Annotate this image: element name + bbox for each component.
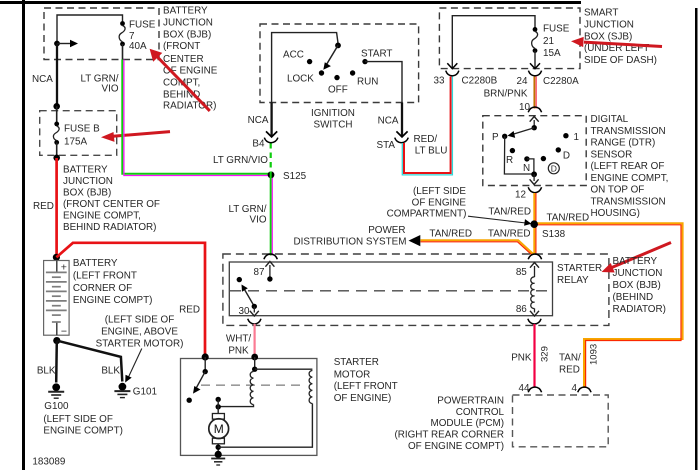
svg-text:CONTROL: CONTROL <box>456 407 505 418</box>
overdrive circled D indicator <box>548 163 559 174</box>
label (LEFT SIDE OF ENGINE, ABOVE STARTER MOTOR) <box>96 315 184 350</box>
svg-text:OF ENGINE): OF ENGINE) <box>334 393 392 404</box>
wire BRN/PNK C2280A to DTR pin 10 (brown) <box>533 77 535 109</box>
svg-text:(LEFT REAR OF: (LEFT REAR OF <box>591 161 665 172</box>
wire NCA to STA <box>401 103 403 137</box>
svg-text:TAN/: TAN/ <box>559 353 581 364</box>
svg-text:4: 4 <box>572 383 578 394</box>
svg-text:OF ENGINE: OF ENGINE <box>412 197 467 208</box>
wire RED/LT BLU STA to C2280B (red) <box>404 77 451 174</box>
svg-text:D: D <box>563 151 570 162</box>
contact OFF <box>334 75 339 80</box>
svg-text:40A: 40A <box>129 41 147 52</box>
svg-text:(LEFT FRONT: (LEFT FRONT <box>73 270 137 281</box>
wire TAN/RED pin12 to S138 (tan) <box>533 193 535 224</box>
svg-text:PNK: PNK <box>228 346 249 357</box>
connector C2280B pin 33 <box>446 63 459 76</box>
wire into fuse B <box>56 106 58 124</box>
contact RUN <box>350 70 355 75</box>
svg-text:START: START <box>361 49 392 60</box>
svg-text:85: 85 <box>516 267 527 278</box>
svg-text:D: D <box>551 164 557 174</box>
red callout arrow to fuse B <box>101 132 170 142</box>
svg-text:RADIATOR): RADIATOR) <box>613 304 666 315</box>
wire N contact to pin 12 <box>527 159 534 174</box>
thin arrow to G101 <box>125 349 142 383</box>
wire TAN/RED S138 down to relay pin 85 (tan) <box>533 224 535 255</box>
svg-text:OF ENGINE COMPT): OF ENGINE COMPT) <box>408 441 504 452</box>
fuse B 175A value label <box>64 124 100 148</box>
connector STA <box>395 131 409 142</box>
relay pin 30 arrow down <box>250 306 259 316</box>
thin arrow from compartment label to S138 <box>468 216 532 226</box>
smart junction box SJB dashed outline <box>439 8 580 69</box>
svg-text:SWITCH: SWITCH <box>314 120 353 131</box>
svg-text:BOX (BJB): BOX (BJB) <box>63 188 111 199</box>
wire BLK battery to G101 <box>57 341 123 382</box>
wire NCA vertical (node to fuse B) <box>56 44 58 107</box>
svg-text:BOX (BJB): BOX (BJB) <box>613 280 661 291</box>
svg-text:ENGINE COMPT,: ENGINE COMPT, <box>63 211 141 222</box>
svg-text:STARTER: STARTER <box>557 263 602 274</box>
motor M1 symbol <box>209 414 229 444</box>
wire BLK battery to G100 <box>55 341 58 383</box>
svg-text:183089: 183089 <box>32 457 65 468</box>
svg-text:HOUSING): HOUSING) <box>591 208 640 219</box>
svg-text:SMART: SMART <box>584 8 618 19</box>
svg-text:RED: RED <box>559 365 580 376</box>
svg-text:BATTERY: BATTERY <box>73 258 118 269</box>
svg-text:VIO: VIO <box>249 215 266 226</box>
splice S125 node <box>268 171 275 178</box>
label TAN/ RED (bottom) <box>559 353 581 376</box>
wire LT GRN/VIO fuse7 to S125 (violet stripe) <box>124 60 271 176</box>
svg-text:BEHIND RADIATOR): BEHIND RADIATOR) <box>63 222 156 233</box>
ignition switch pivot <box>335 43 341 49</box>
svg-text:PNK: PNK <box>511 353 532 364</box>
power distribution arrow triangle <box>409 235 421 246</box>
contact P <box>502 134 507 139</box>
svg-text:LT GRN/: LT GRN/ <box>228 204 266 215</box>
svg-text:STARTER MOTOR): STARTER MOTOR) <box>96 339 184 350</box>
svg-text:LOCK: LOCK <box>287 73 314 84</box>
connector C2280A pin 24 <box>528 63 541 76</box>
node below fuse B box <box>53 155 60 162</box>
wire branch arrow to other circuits <box>57 40 78 47</box>
PCM location label text <box>394 396 504 452</box>
connector B4 <box>264 131 278 142</box>
contact 1 <box>563 133 568 138</box>
fuse B symbol <box>53 122 59 145</box>
wire from START contact <box>365 62 402 103</box>
contact D <box>556 147 561 152</box>
svg-text:TAN/RED: TAN/RED <box>488 206 531 217</box>
label RED/ LT BLU <box>414 134 448 157</box>
motor feed wire <box>217 399 219 413</box>
node junction in BJB <box>54 41 60 47</box>
svg-text:NCA: NCA <box>248 115 269 126</box>
svg-text:(LEFT SIDE OF: (LEFT SIDE OF <box>105 315 175 326</box>
label LT GRN/ VIO (upper) <box>80 74 118 95</box>
relay lever arm <box>242 285 255 307</box>
red callout arrow to fuse 7 <box>150 49 210 111</box>
starter ground symbol <box>211 459 225 466</box>
wire TAN/RED from power distribution (red stripe) <box>421 242 533 255</box>
SJB location label text <box>584 8 657 67</box>
svg-text:MODULE (PCM): MODULE (PCM) <box>430 418 504 429</box>
svg-text:JUNCTION: JUNCTION <box>63 176 113 187</box>
svg-text:G100: G100 <box>44 401 69 412</box>
svg-text:12: 12 <box>515 190 526 201</box>
DTR selector pivot <box>532 125 537 130</box>
svg-text:BOX (BJB): BOX (BJB) <box>163 29 211 40</box>
wire below fuse 21 <box>534 51 536 68</box>
svg-text:S138: S138 <box>542 229 566 240</box>
connector relay pin 87 <box>264 254 277 259</box>
junction node at pin 12 <box>531 171 537 177</box>
svg-text:24: 24 <box>517 76 528 87</box>
contact R <box>510 148 515 153</box>
svg-text:BATTERY: BATTERY <box>63 165 108 176</box>
svg-text:C2280B: C2280B <box>462 76 498 87</box>
svg-text:TAN/RED: TAN/RED <box>429 229 472 240</box>
svg-text:COMPARTMENT): COMPARTMENT) <box>387 209 467 220</box>
svg-text:SIDE OF DASH): SIDE OF DASH) <box>584 55 657 66</box>
svg-text:175A: 175A <box>64 137 87 148</box>
svg-text:CORNER OF: CORNER OF <box>73 283 132 294</box>
svg-text:BRN/PNK: BRN/PNK <box>484 89 528 100</box>
connector DTR pin 12 <box>528 187 541 192</box>
border frame top <box>0 1 581 4</box>
fuse F21 symbol <box>532 27 538 53</box>
svg-text:ENGINE COMPT): ENGINE COMPT) <box>73 295 153 306</box>
svg-text:86: 86 <box>516 304 527 315</box>
connector relay pin 30 <box>248 319 261 324</box>
label IGNITION SWITCH <box>311 108 355 131</box>
starter contact stem <box>204 357 206 372</box>
svg-text:RUN: RUN <box>357 76 378 87</box>
node above fuse B box <box>53 103 60 110</box>
border frame right <box>695 8 698 470</box>
svg-text:LT BLU: LT BLU <box>415 146 448 157</box>
starter feed node (red entry) <box>202 353 209 360</box>
relay inner dashed divider <box>230 290 552 292</box>
svg-text:RED: RED <box>33 201 54 212</box>
svg-text:15A: 15A <box>543 48 561 59</box>
G100 location label <box>43 414 123 437</box>
connector relay pin 85 <box>528 254 541 259</box>
svg-text:G101: G101 <box>133 387 158 398</box>
svg-text:44: 44 <box>519 383 530 394</box>
DTR sensor dashed box <box>483 116 586 186</box>
svg-text:ENGINE COMPT): ENGINE COMPT) <box>43 426 123 437</box>
red callout arrow to SJB <box>571 37 662 47</box>
svg-text:CENTER: CENTER <box>163 54 204 65</box>
starter inner dashed divider <box>201 384 301 386</box>
wire TAN/RED from power distribution (tan) <box>421 240 534 254</box>
svg-text:(FRONT CENTER OF: (FRONT CENTER OF <box>63 199 160 210</box>
relay pin 87 arrow <box>265 262 274 280</box>
connector PCM pin 4 <box>578 387 591 392</box>
BJB (fuse B) location label text <box>63 165 160 234</box>
wire WHT/PNK relay 30 to starter <box>254 324 256 357</box>
starter solenoid contact upper <box>203 369 208 374</box>
relay pin 30 contact node <box>252 304 257 309</box>
ground G100 <box>48 383 64 398</box>
wire TAN/RED S138 loop to PCM pin 4 (tan) <box>534 223 682 388</box>
svg-text:TAN/RED: TAN/RED <box>547 213 590 224</box>
svg-text:RANGE (DTR): RANGE (DTR) <box>591 138 656 149</box>
svg-text:1: 1 <box>574 132 580 143</box>
solenoid winding feed wire <box>254 357 256 369</box>
label WHT/ PNK <box>226 334 251 357</box>
svg-text:(LEFT SIDE OF: (LEFT SIDE OF <box>43 414 113 425</box>
wire out of fuse B <box>56 142 58 157</box>
svg-text:IGNITION: IGNITION <box>311 108 355 119</box>
relay pin 87 contact node <box>267 276 272 281</box>
wire LT GRN/VIO B4 to relay (violet stripe) <box>271 178 273 256</box>
label (LEFT SIDE OF ENGINE COMPARTMENT) <box>387 186 467 220</box>
svg-text:(FRONT: (FRONT <box>163 41 200 52</box>
svg-text:ENGINE, ABOVE: ENGINE, ABOVE <box>101 327 178 338</box>
svg-text:OFF: OFF <box>328 85 348 96</box>
starter solenoid contact lower <box>187 398 192 403</box>
svg-text:RELAY: RELAY <box>557 275 589 286</box>
starter case ground node <box>215 451 222 458</box>
svg-text:JUNCTION: JUNCTION <box>613 268 663 279</box>
svg-text:BATTERY: BATTERY <box>613 256 658 267</box>
svg-text:DIGITAL: DIGITAL <box>591 114 629 125</box>
svg-text:BATTERY: BATTERY <box>163 6 208 17</box>
svg-text:FUSE: FUSE <box>129 20 156 31</box>
svg-text:LT GRN/VIO: LT GRN/VIO <box>213 155 268 166</box>
solenoid winding junction <box>252 367 257 372</box>
connector DTR pin 10 <box>528 107 541 112</box>
wire RED fuse B to battery <box>55 158 58 257</box>
wire BRN/PNK C2280A to DTR pin 10 (pink stripe) <box>535 77 537 109</box>
wire NCA to B4 <box>270 103 272 137</box>
svg-text:TAN/RED: TAN/RED <box>488 229 531 240</box>
svg-text:VIO: VIO <box>101 84 118 95</box>
PCM dashed box <box>513 395 609 447</box>
svg-text:POWER: POWER <box>368 225 405 236</box>
svg-text:RED: RED <box>179 305 200 316</box>
wire RED battery to starter motor <box>56 243 205 357</box>
wire inside BJB from node to fuse 7 <box>57 15 123 44</box>
border frame left <box>22 0 25 470</box>
motor terminal node upper <box>216 397 221 402</box>
starter motor solid box <box>181 359 317 456</box>
svg-text:TRANSMISSION: TRANSMISSION <box>591 196 666 207</box>
svg-text:M: M <box>214 422 224 436</box>
ignition switch lever arm <box>323 45 338 69</box>
wire TAN/RED pin12 to S138 (red stripe) <box>535 193 537 224</box>
svg-text:R: R <box>506 155 513 166</box>
fuse B dashed box <box>40 111 117 156</box>
svg-text:(LEFT SIDE: (LEFT SIDE <box>413 186 466 197</box>
svg-text:ON TOP OF: ON TOP OF <box>591 185 645 196</box>
wire RED/LT BLU STA to C2280B (lt blue stripe) <box>402 77 452 175</box>
svg-text:WHT/: WHT/ <box>226 334 251 345</box>
svg-text:ENGINE COMPT,: ENGINE COMPT, <box>591 173 669 184</box>
svg-text:−: − <box>61 326 67 338</box>
svg-text:S125: S125 <box>283 171 307 182</box>
svg-text:FUSE: FUSE <box>543 24 570 35</box>
battery negative node <box>53 337 60 344</box>
splice S138 node <box>530 220 538 228</box>
connector PCM pin 44 <box>528 387 541 392</box>
svg-text:RED/: RED/ <box>414 134 438 145</box>
svg-text:BLK: BLK <box>37 366 56 377</box>
contact ACC <box>307 59 312 64</box>
starter relay inner solid box <box>229 262 552 316</box>
svg-text:BLK: BLK <box>101 366 120 377</box>
BJB location label text <box>163 6 218 112</box>
svg-text:329: 329 <box>540 346 551 362</box>
svg-text:(LEFT FRONT: (LEFT FRONT <box>334 381 398 392</box>
wire inside SJB to fuse 21 <box>452 16 535 68</box>
svg-text:+: + <box>61 261 67 273</box>
svg-text:ACC: ACC <box>283 49 304 60</box>
svg-text:87: 87 <box>254 267 265 278</box>
contact between N and D <box>541 156 546 161</box>
wire pull-in winding to motor terminal <box>218 405 253 407</box>
battery location label text <box>73 258 153 306</box>
svg-text:1093: 1093 <box>589 344 600 365</box>
svg-text:C2280A: C2280A <box>543 76 579 87</box>
wire stub below fuse 7 <box>122 44 124 60</box>
wire LT GRN/VIO B4 to S125 (green dashed) <box>270 143 272 173</box>
label STARTER RELAY <box>557 263 602 286</box>
svg-text:NCA: NCA <box>378 116 399 127</box>
motor terminal node lower <box>216 404 221 409</box>
starter solenoid lever <box>193 372 205 394</box>
ignition switch feed wire <box>272 33 338 103</box>
contact LOCK <box>319 70 324 75</box>
svg-text:(BEHIND: (BEHIND <box>613 292 654 303</box>
motor ground junction <box>216 445 221 450</box>
red callout arrow to starter relay <box>602 243 672 273</box>
relay coil L1 <box>531 277 535 309</box>
relay fixed contact <box>237 277 242 282</box>
svg-text:P: P <box>492 132 499 143</box>
battery BAT1 symbol <box>44 261 70 338</box>
svg-text:SENSOR: SENSOR <box>591 149 633 160</box>
DTR lever arm to P <box>508 128 535 138</box>
contact N <box>524 156 529 161</box>
wire P contact to pin 12 <box>504 136 534 174</box>
svg-text:JUNCTION: JUNCTION <box>163 17 213 28</box>
wire PNK relay 86 to PCM pin 44 <box>533 324 535 387</box>
contact START <box>362 59 367 64</box>
relay coil arrow up <box>530 263 539 278</box>
svg-text:JUNCTION: JUNCTION <box>584 19 634 30</box>
fuse F7 symbol <box>119 21 125 46</box>
svg-text:STA: STA <box>377 140 396 151</box>
starter solenoid feed node (pink entry) <box>251 354 258 361</box>
connector relay pin 86 <box>528 319 541 324</box>
svg-text:BOX (SJB): BOX (SJB) <box>584 31 632 42</box>
wire LT GRN/VIO S125 to relay (green) <box>270 173 272 256</box>
ground G101 <box>114 383 130 398</box>
label LT GRN/ VIO (lower) <box>228 204 266 226</box>
svg-text:NCA: NCA <box>32 74 53 85</box>
wire TAN/RED S138 loop to PCM pin 4 (red stripe) <box>534 225 681 388</box>
battery positive node <box>53 254 60 261</box>
svg-text:30: 30 <box>239 306 250 317</box>
starter relay outer dashed box <box>223 254 609 325</box>
label POWER DISTRIBUTION SYSTEM <box>293 225 406 247</box>
svg-text:FUSE B: FUSE B <box>64 124 100 135</box>
svg-text:B4: B4 <box>252 139 265 150</box>
DTR location label text <box>591 114 669 219</box>
ignition switch dashed box <box>260 24 419 103</box>
battery junction box BJB (top-left) dashed outline <box>44 8 159 60</box>
hold-in winding L2 <box>309 371 312 404</box>
svg-text:21: 21 <box>543 36 554 47</box>
DTR output arrow to pin 12 <box>530 174 539 184</box>
wire TAN/RED S138 down to relay pin 85 (red stripe) <box>535 224 537 255</box>
pull-in winding L1 <box>250 372 253 405</box>
label STARTER MOTOR (LEFT FRONT OF ENGINE) <box>334 357 398 404</box>
fuse 21 15A value label <box>543 24 570 60</box>
svg-text:33: 33 <box>434 76 445 87</box>
svg-text:DISTRIBUTION SYSTEM: DISTRIBUTION SYSTEM <box>293 237 406 248</box>
fuse 7 40A value label <box>129 20 156 53</box>
svg-text:TRANSMISSION: TRANSMISSION <box>591 126 666 137</box>
wire LT GRN/VIO fuse7 to S125 (green) <box>122 60 270 174</box>
wire to hold-in winding <box>255 368 313 370</box>
svg-text:(RIGHT REAR CORNER: (RIGHT REAR CORNER <box>394 430 504 441</box>
svg-text:POWERTRAIN: POWERTRAIN <box>437 396 504 407</box>
BJB behind radiator label text <box>613 256 666 315</box>
motor ground wire <box>217 444 219 455</box>
svg-text:N: N <box>523 163 530 174</box>
relay coil arrow down <box>530 309 539 317</box>
hold-in winding return wire <box>218 404 312 448</box>
svg-text:STARTER: STARTER <box>334 357 379 368</box>
svg-text:MOTOR: MOTOR <box>334 369 371 380</box>
DTR input arrow from pin 10 <box>530 117 539 128</box>
